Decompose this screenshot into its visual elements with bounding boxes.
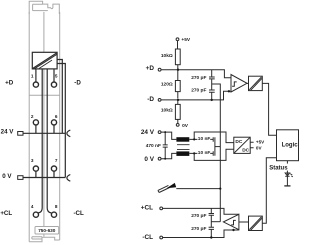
- svg-text:3: 3: [31, 158, 34, 163]
- svg-text:270 pF: 270 pF: [191, 226, 206, 232]
- svg-text:0 V: 0 V: [2, 173, 12, 180]
- svg-text:10kΩ: 10kΩ: [161, 108, 173, 114]
- svg-text:DC: DC: [242, 148, 249, 154]
- svg-text:1: 1: [31, 73, 34, 78]
- svg-text:24 V: 24 V: [1, 129, 15, 136]
- svg-text:24 V: 24 V: [141, 129, 155, 136]
- svg-text:8: 8: [55, 204, 58, 209]
- svg-text:4: 4: [31, 204, 34, 209]
- svg-text:-D: -D: [74, 80, 81, 87]
- svg-text:270 pF: 270 pF: [191, 213, 206, 219]
- svg-text:0 V: 0 V: [144, 156, 154, 163]
- svg-text:10 nF: 10 nF: [198, 136, 211, 142]
- svg-text:+D: +D: [146, 65, 155, 72]
- svg-text:+CL: +CL: [0, 210, 12, 217]
- svg-text:2: 2: [31, 114, 34, 119]
- svg-text:120Ω: 120Ω: [161, 81, 173, 87]
- svg-text:+5V: +5V: [181, 37, 190, 43]
- svg-text:0V: 0V: [256, 145, 263, 150]
- svg-text:470 nF: 470 nF: [146, 143, 161, 149]
- svg-text:10kΩ: 10kΩ: [161, 53, 173, 59]
- svg-text:270 pF: 270 pF: [191, 88, 206, 94]
- svg-text:-D: -D: [147, 96, 154, 103]
- svg-text:750-630: 750-630: [38, 228, 56, 233]
- svg-text:10 nF: 10 nF: [198, 150, 211, 156]
- svg-text:7: 7: [55, 158, 58, 163]
- svg-text:+D: +D: [5, 80, 14, 87]
- svg-text:-CL: -CL: [142, 234, 153, 241]
- svg-text:DC: DC: [235, 139, 242, 145]
- svg-text:Status: Status: [269, 165, 288, 171]
- svg-text:-CL: -CL: [74, 210, 85, 217]
- svg-text:0V: 0V: [182, 123, 189, 129]
- svg-text:6: 6: [55, 114, 58, 119]
- svg-text:5: 5: [55, 73, 58, 78]
- svg-text:+CL: +CL: [141, 204, 153, 211]
- svg-text:+5V: +5V: [256, 140, 265, 145]
- svg-text:Logic: Logic: [282, 143, 299, 149]
- svg-text:270 pF: 270 pF: [191, 75, 206, 81]
